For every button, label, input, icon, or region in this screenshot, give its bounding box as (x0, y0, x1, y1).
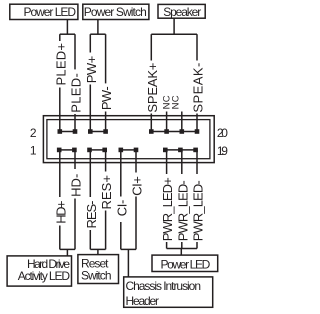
wire HD+ upper (59, 150, 61, 197)
pin 15 PWR_LED+ (163, 148, 168, 153)
svg-text:Switch: Switch (81, 268, 112, 282)
wire HD- lower leg (74, 199, 76, 250)
svg-text:NC: NC (170, 95, 181, 109)
wire RES+ lower leg (105, 211, 107, 250)
pin 7 RES+ (102, 148, 107, 153)
wire HD- upper (74, 150, 76, 169)
wire HD+ lower leg (59, 226, 61, 250)
box Hard Drive Activity LED (7, 256, 71, 286)
svg-text:2: 2 (30, 126, 37, 140)
pin 19 PWR_LED- (193, 148, 198, 153)
wire bar Reset Switch (90, 248, 105, 250)
wire PWR_LED- pin19 lower leg (196, 242, 198, 249)
wire stub Chassis Intrusion box (127, 249, 129, 277)
svg-text:PWR_LED-: PWR_LED- (191, 180, 206, 241)
pin 8 PW- (103, 129, 108, 134)
wire RES- lower leg (89, 230, 91, 249)
wire PWR_LED+ upper (166, 150, 168, 174)
wire PWR_LED- pin19 upper (196, 150, 198, 174)
pin 17 PWR_LED- (178, 148, 183, 153)
svg-text:PLED+: PLED+ (53, 43, 68, 86)
svg-text:Speaker: Speaker (163, 5, 201, 19)
box Reset Switch (78, 255, 119, 284)
wire stub Reset Switch box (97, 249, 99, 254)
wire pair link pins 6-8 (90, 131, 105, 133)
pin 14 SPEAK+ (149, 129, 154, 134)
wire PW+ upper leg (89, 34, 91, 52)
wire pair link pins 2-4 (60, 131, 75, 133)
wire PLED- lower (74, 114, 76, 132)
svg-text:PLED-: PLED- (69, 73, 84, 113)
wire stub Speaker box (173, 18, 175, 34)
connector F_PANEL inner outline (47, 120, 210, 159)
svg-text:PW-: PW- (99, 86, 114, 110)
wire CI- lower leg (120, 222, 122, 249)
svg-text:PWR_LED+: PWR_LED+ (160, 177, 175, 241)
wire PLED- upper leg (74, 34, 76, 69)
svg-text:1: 1 (30, 144, 37, 158)
wire PLED+ upper leg (59, 34, 61, 41)
wire CI+ upper (135, 150, 137, 173)
wire stub Hard Drive LED box (66, 249, 68, 256)
svg-text:PW+: PW+ (84, 56, 99, 84)
wire SPEAK+ upper leg (150, 34, 152, 60)
svg-text:SPEAK+: SPEAK+ (145, 63, 160, 113)
wire SPEAK- lower (196, 114, 198, 132)
pin 16 NC (164, 129, 169, 134)
svg-text:CI-: CI- (114, 200, 129, 217)
pin 4 PLED- (73, 129, 78, 134)
wire pair link pins 1-3 (60, 149, 75, 151)
pin 11 CI+ (134, 148, 139, 153)
pin 5 RES- (87, 148, 92, 153)
wire PWR_LED- pin17 lower leg (181, 242, 183, 249)
pin 1 HD+ (57, 148, 62, 153)
pin 2 PLED+ (58, 129, 63, 134)
pin 9 CI- (119, 148, 124, 153)
svg-text:Power LED: Power LED (161, 257, 211, 271)
svg-text:Chassis Intrusion: Chassis Intrusion (126, 279, 202, 293)
svg-text:HD+: HD+ (53, 201, 68, 224)
svg-text:Power LED: Power LED (24, 5, 77, 19)
pin 6 PW+ (88, 129, 93, 134)
box Power LED (top) (10, 4, 78, 19)
wire bar Speaker (151, 33, 197, 35)
connector F_PANEL outer outline (43, 116, 214, 163)
wire RES+ upper (105, 150, 107, 172)
box Speaker (158, 4, 205, 18)
wire PWR_LED- pin17 upper (181, 150, 183, 174)
wire link pins 14-20 (151, 131, 197, 133)
wire PW- lower (105, 112, 107, 132)
wire link pins 15-19 (167, 149, 197, 151)
wire PW- upper leg (105, 34, 107, 83)
wire bar Hard Drive LED (60, 248, 75, 250)
box Power Switch (83, 4, 149, 19)
wire bar Power LED bottom (167, 248, 197, 250)
wire bar Power LED (60, 33, 75, 35)
box Power LED (bottom) (152, 255, 218, 271)
wire RES- upper (89, 150, 91, 197)
wire stub Power LED bottom box (180, 249, 182, 256)
wire SPEAK- upper leg (196, 34, 198, 60)
wire bar Power Switch (90, 33, 105, 35)
pin 18 NC (180, 129, 185, 134)
svg-text:Activity LED: Activity LED (18, 269, 71, 283)
svg-text:SPEAK-: SPEAK- (191, 63, 206, 113)
pin 20 SPEAK- (195, 129, 200, 134)
pin 3 HD- (72, 148, 77, 153)
box Chassis Intrusion Header (124, 277, 213, 307)
wire CI- upper (120, 150, 122, 197)
wire PWR_LED+ lower leg (166, 242, 168, 249)
svg-text:Header: Header (126, 294, 160, 308)
svg-text:Power Switch: Power Switch (84, 5, 147, 19)
wire NC pin18 (181, 112, 183, 132)
wire pair link pins 9-11 (121, 149, 136, 151)
svg-text:CI+: CI+ (130, 176, 145, 196)
wire PLED+ lower (59, 88, 61, 132)
wire bar Chassis Intrusion (121, 248, 136, 250)
svg-text:20: 20 (217, 126, 228, 140)
wire SPEAK+ lower (150, 114, 152, 132)
svg-text:PWR_LED-: PWR_LED- (175, 180, 190, 241)
wire stub Power LED box (66, 20, 68, 35)
wire CI+ lower leg (135, 197, 137, 250)
wire stub Power Switch box (97, 20, 99, 35)
wire pair link pins 5-7 (90, 149, 105, 151)
wire PW+ lower (89, 85, 91, 132)
svg-text:RES-: RES- (84, 201, 99, 229)
svg-text:19: 19 (217, 144, 228, 158)
svg-text:RES+: RES+ (99, 175, 114, 210)
svg-text:HD-: HD- (69, 174, 84, 197)
wire NC pin16 (166, 112, 168, 132)
